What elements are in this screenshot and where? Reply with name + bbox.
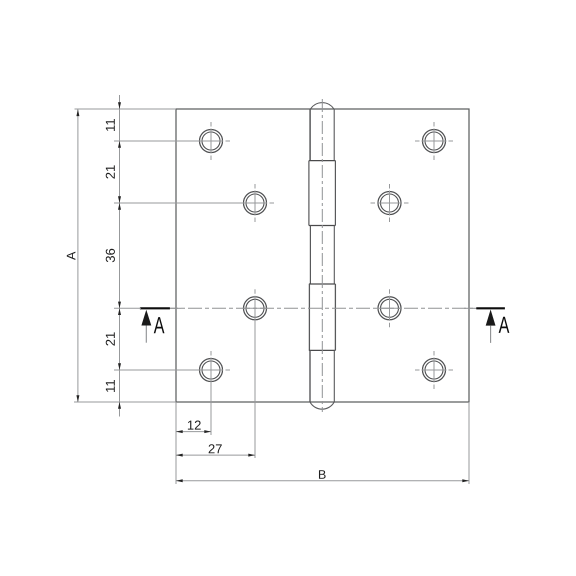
screw hole H8 (row4 right) — [423, 359, 446, 382]
section cutting plane thick tick, left — [140, 307, 170, 309]
dim text 11 (top) — [106, 119, 115, 131]
barrel knuckle 1 (top) — [310, 109, 334, 161]
section arrow left (filled triangle) — [141, 310, 151, 326]
barrel knuckle 4 — [309, 284, 335, 350]
extension line hole row1 (y=141) — [114, 140, 223, 142]
section arrow left tail — [145, 326, 147, 343]
barrel knuckle 3 — [310, 226, 334, 285]
dimension line B — [176, 480, 469, 482]
extension line hole row4 (y=370) — [114, 369, 223, 371]
barrel knuckle 5 (bottom) — [310, 350, 334, 402]
hole H3 crosshair — [255, 184, 274, 222]
screw hole H2 (row1 right) — [423, 130, 446, 153]
barrel bottom dome — [310, 402, 334, 409]
section arrow right tail — [490, 326, 492, 343]
knuckle joint line 4 — [309, 349, 336, 351]
extension line hole row2 (y=203) — [114, 202, 267, 204]
overall dimension line A (x=77.9) — [77, 109, 79, 402]
section arrow right (filled triangle) — [486, 310, 496, 326]
extension line bottom edge (y=402) — [74, 401, 176, 403]
extension from hole H7 down merged solid — [210, 383, 212, 390]
barrel knuckle 2 — [309, 161, 336, 226]
extension line top edge (y=109) — [75, 108, 177, 110]
chain arrow at y=402 (up from below) — [118, 402, 121, 409]
knuckle joint line 3 — [309, 283, 336, 285]
dim text 27 — [209, 444, 222, 453]
dim text A — [67, 252, 76, 260]
chain arrows at y=308.3 — [118, 302, 121, 309]
dim text B — [319, 470, 326, 479]
hinge leaf outline (plate) — [176, 109, 469, 402]
chain arrow at y=141 (up) — [118, 141, 121, 148]
extension line plate right edge (x=469 down) — [468, 402, 470, 484]
chain dimension line (x=119.5) — [119, 95, 121, 417]
section cutting plane thick tick, right — [476, 307, 505, 309]
hole H8 crosshair — [415, 351, 453, 389]
dim text 21 (lower) — [106, 332, 115, 345]
extension line section row (y=308.3) — [114, 307, 141, 309]
hole H4 crosshair — [371, 184, 409, 222]
hole H1 crosshair — [211, 122, 230, 160]
screw hole H6 (row3 right, on section line) — [378, 297, 401, 320]
dim text 36 — [106, 249, 115, 262]
dim A arrow bottom (down) — [76, 395, 79, 402]
knuckle joint line 1 — [309, 160, 336, 162]
barrel vertical centerline — [321, 99, 323, 412]
dimension line 27 — [176, 454, 255, 456]
extension line hole col x=255 (to 27 dim) — [254, 320, 256, 458]
screw hole H1 (row1 left) — [200, 130, 223, 153]
hole H2 crosshair — [415, 122, 453, 160]
chain arrow at y=109 (down) — [118, 102, 121, 109]
section line A-A (dash-dot) — [140, 307, 505, 309]
section label A right — [499, 317, 510, 333]
section line solid joints at plate edges — [170, 307, 181, 309]
hole H7 crosshair — [211, 351, 230, 383]
dim A arrow top (up) — [76, 109, 79, 116]
extension line hole col x=211 (to 12 dim) — [210, 389, 212, 435]
chain arrow at y=370 (down) — [118, 363, 121, 370]
dimension line 12 — [176, 431, 211, 433]
extension line plate left edge (x=176 down) — [175, 402, 177, 484]
screw hole H4 (row2 right) — [378, 192, 401, 215]
screw hole H7 (row4 left) — [200, 359, 223, 382]
chain arrows at y=203 — [118, 196, 121, 203]
hole H6 crosshair — [377, 289, 402, 327]
hole H5 crosshair — [243, 289, 268, 320]
dim text 11 (bottom) — [106, 380, 115, 392]
screw hole H5 (row3 left, on section line) — [244, 297, 267, 320]
dim text 12 — [188, 421, 201, 430]
section label A left — [154, 317, 165, 333]
barrel top dome — [310, 103, 334, 109]
knuckle joint line 2 — [309, 225, 336, 227]
screw hole H3 (row2 left) — [244, 192, 267, 215]
dim text 21 (upper) — [106, 165, 115, 178]
